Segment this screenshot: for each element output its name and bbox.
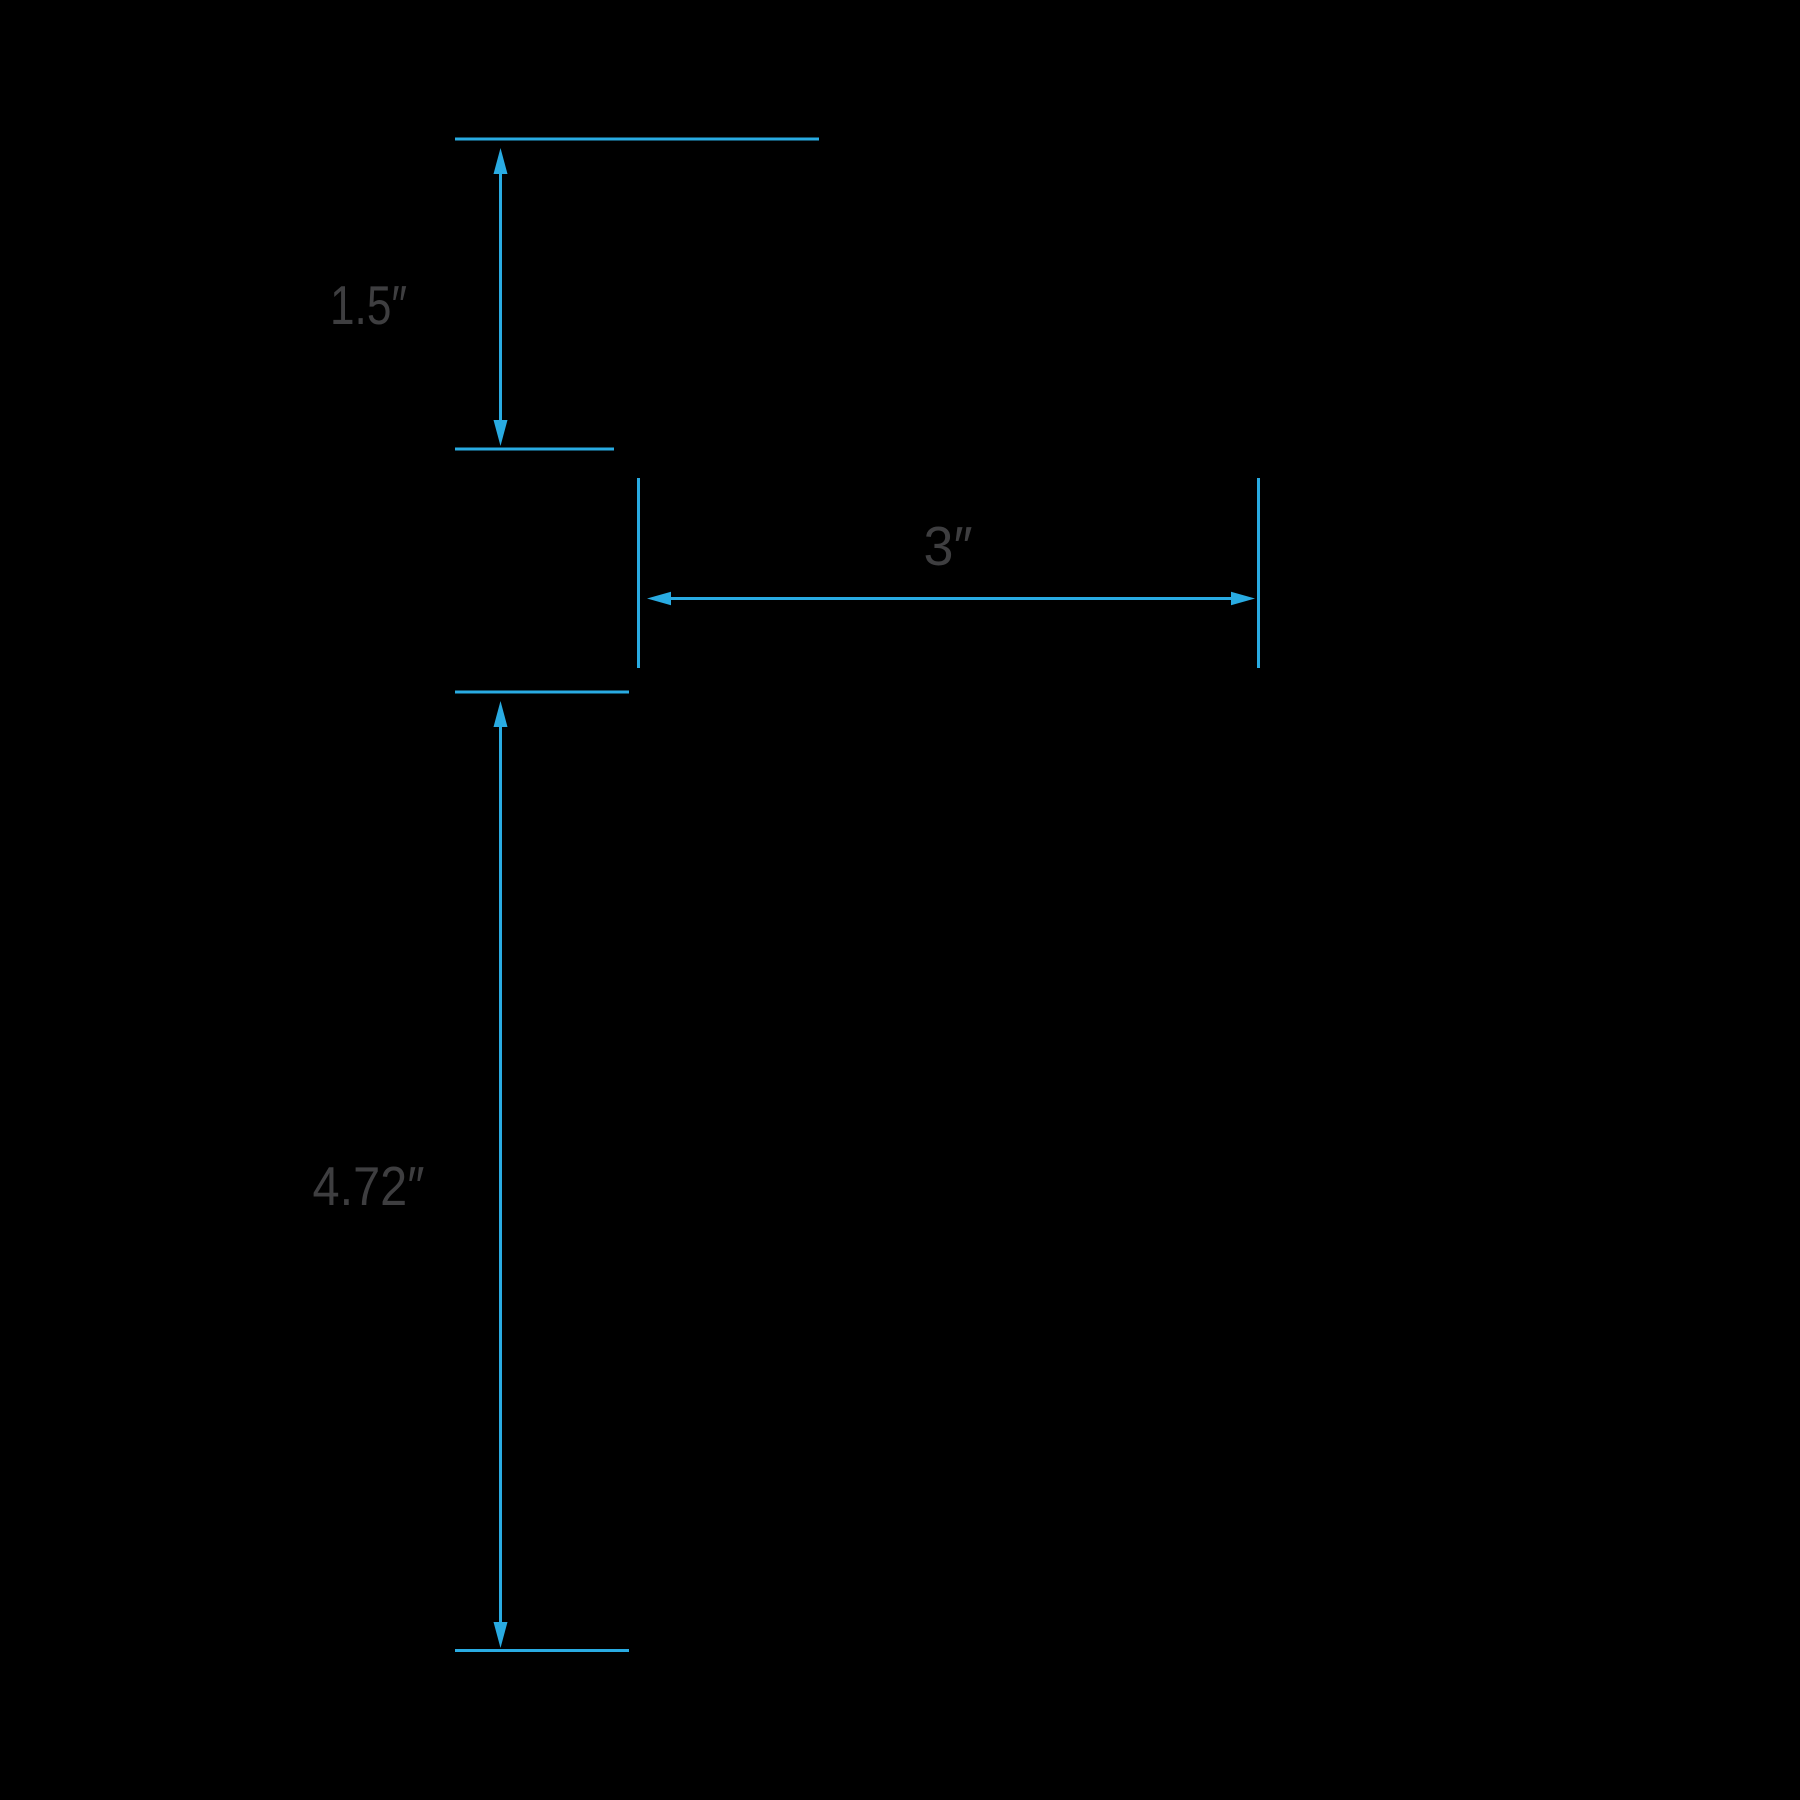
fixture bottom edge line (third reference line) bbox=[455, 691, 629, 694]
dimension arrow 1.5 inch (vertical double arrow) bbox=[494, 148, 508, 446]
bottom reference line bbox=[455, 1649, 629, 1652]
top reference line (wall/ceiling plane) bbox=[455, 138, 819, 141]
right extension tick of 3 inch dimension bbox=[1257, 478, 1260, 668]
svg-text:1.5″: 1.5″ bbox=[330, 274, 407, 336]
svg-text:3″: 3″ bbox=[924, 515, 973, 577]
dimension arrow 4.72 inch (vertical double arrow) bbox=[494, 701, 508, 1648]
svg-text:4.72″: 4.72″ bbox=[313, 1155, 425, 1217]
fixture top edge line (second reference line) bbox=[455, 448, 614, 451]
dimension arrow 3 inch (horizontal double arrow) bbox=[647, 592, 1255, 606]
left extension tick of 3 inch dimension bbox=[637, 478, 640, 668]
